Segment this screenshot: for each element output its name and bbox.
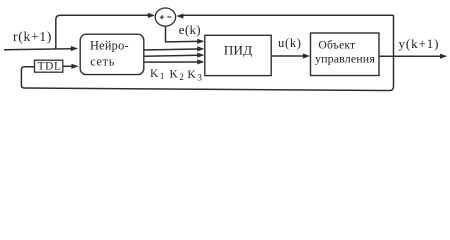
svg-text:r(k+1): r(k+1) bbox=[13, 29, 52, 44]
svg-text:ПИД: ПИД bbox=[224, 43, 253, 58]
svg-text:1: 1 bbox=[160, 71, 165, 81]
svg-text:e(k): e(k) bbox=[179, 22, 201, 37]
svg-text:K: K bbox=[170, 69, 179, 81]
svg-text:3: 3 bbox=[197, 73, 202, 83]
svg-text:y(k+1): y(k+1) bbox=[399, 36, 440, 51]
svg-text:TDL: TDL bbox=[38, 61, 62, 73]
svg-text:K: K bbox=[150, 68, 159, 80]
svg-text:K: K bbox=[187, 69, 196, 81]
svg-text:Нейро-: Нейро- bbox=[90, 38, 129, 52]
svg-text:Объект: Объект bbox=[318, 38, 355, 51]
svg-text:сеть: сеть bbox=[90, 55, 115, 69]
svg-text:u(k): u(k) bbox=[278, 36, 302, 50]
svg-text:управления: управления bbox=[315, 51, 375, 65]
svg-text:2: 2 bbox=[179, 72, 184, 82]
